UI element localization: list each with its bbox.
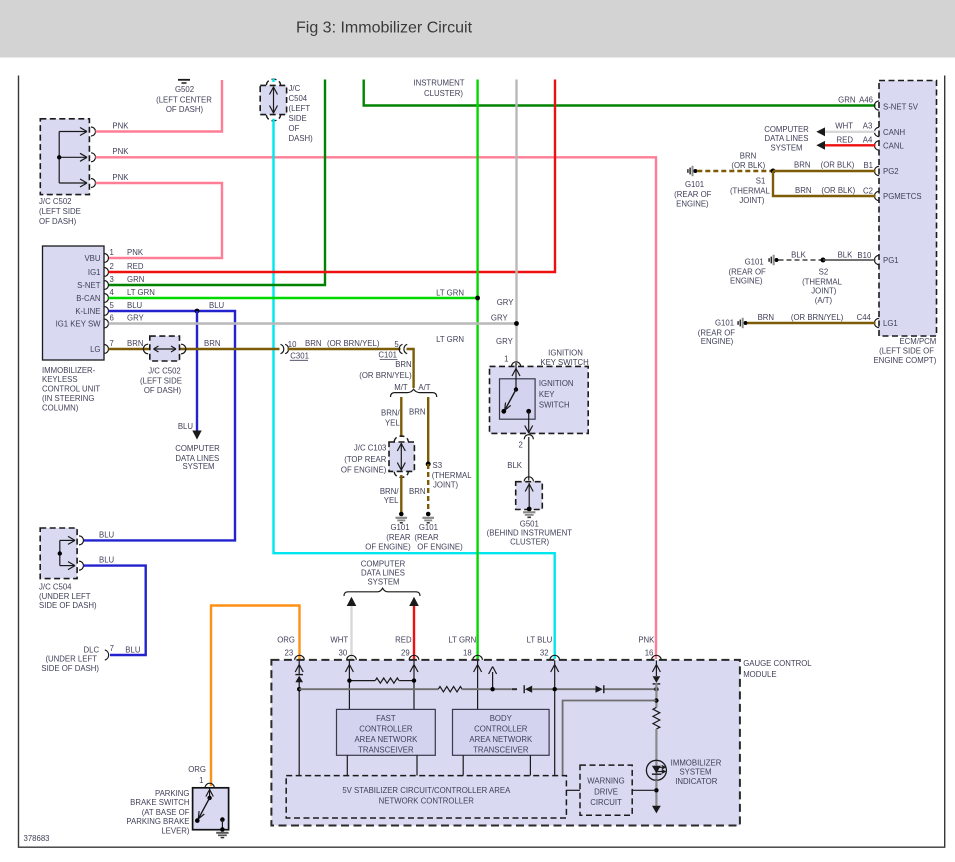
svg-text:BRN/: BRN/ xyxy=(381,408,400,417)
svg-text:OF ENGINE): OF ENGINE) xyxy=(365,542,411,551)
svg-text:C301: C301 xyxy=(290,351,309,360)
wire junction to warning drive circuit xyxy=(632,789,656,791)
svg-text:BRN: BRN xyxy=(395,360,411,369)
svg-text:PG1: PG1 xyxy=(883,256,899,265)
svg-text:(OR BRN/YEL): (OR BRN/YEL) xyxy=(359,371,412,380)
svg-text:C44: C44 xyxy=(857,313,872,322)
main internal bus with resistor R2 xyxy=(299,687,656,692)
svg-text:CLUSTER): CLUSTER) xyxy=(510,538,549,547)
node LED warning junction xyxy=(654,788,658,792)
svg-text:BRN: BRN xyxy=(409,408,425,417)
svg-text:IMMOBILIZER-: IMMOBILIZER- xyxy=(42,366,96,375)
svg-text:FAST: FAST xyxy=(376,714,396,723)
wire PNK C502 pin2 to gauge module pin16 xyxy=(96,157,657,659)
svg-text:Fig 3: Immobilizer Circuit: Fig 3: Immobilizer Circuit xyxy=(296,19,473,36)
brace computer data lines xyxy=(344,588,420,596)
wire pin16 branch to 5V stabilizer xyxy=(563,701,657,776)
svg-text:S-NET: S-NET xyxy=(77,281,101,290)
arrow CANH left xyxy=(816,127,825,136)
internal arrow stub near pin18 xyxy=(489,667,497,690)
svg-text:BLU: BLU xyxy=(178,422,194,431)
module pin arcs xyxy=(295,655,661,660)
wire stabilizer to warning box xyxy=(566,789,580,791)
split brace M/T A/T xyxy=(391,389,437,397)
node pin32 bus junction xyxy=(553,687,557,691)
node S1 thermal joint xyxy=(771,169,776,174)
svg-text:B1: B1 xyxy=(863,161,873,170)
svg-text:G502: G502 xyxy=(175,85,194,94)
svg-text:MODULE: MODULE xyxy=(743,670,776,679)
svg-text:LG1: LG1 xyxy=(883,319,898,328)
wire WHT stub to module pin30 xyxy=(350,606,352,660)
svg-text:SIDE OF DASH): SIDE OF DASH) xyxy=(41,664,99,673)
LED immobilizer system indicator xyxy=(646,760,666,780)
svg-text:BLU: BLU xyxy=(125,645,141,654)
gauge control module box xyxy=(271,660,740,826)
svg-text:YEL: YEL xyxy=(385,418,400,427)
svg-text:30: 30 xyxy=(339,649,348,658)
svg-text:ECM/PCM: ECM/PCM xyxy=(899,337,936,346)
junction connector G501 J/C xyxy=(516,477,543,510)
wire GRN immobilizer unit pin3 up xyxy=(109,80,326,286)
svg-text:J/C C504: J/C C504 xyxy=(39,583,72,592)
ground G101 (PG2) xyxy=(688,166,697,176)
svg-text:1: 1 xyxy=(110,248,114,257)
svg-text:CLUSTER): CLUSTER) xyxy=(424,89,463,98)
wire BRN/YEL M/T branch xyxy=(400,397,402,437)
svg-text:29: 29 xyxy=(401,649,410,658)
wire LED down xyxy=(655,780,657,806)
svg-text:G101: G101 xyxy=(715,319,734,328)
svg-text:GAUGE CONTROL: GAUGE CONTROL xyxy=(743,659,812,668)
svg-text:5V STABILIZER CIRCUIT/CONTROLL: 5V STABILIZER CIRCUIT/CONTROLLER AREA xyxy=(342,786,511,795)
fast controller box xyxy=(337,709,436,755)
svg-text:(AT BASE OF: (AT BASE OF xyxy=(142,808,190,817)
svg-text:(REAR OF: (REAR OF xyxy=(674,190,711,199)
svg-text:BRN: BRN xyxy=(740,152,756,161)
svg-text:JOINT): JOINT) xyxy=(811,286,837,295)
svg-text:PNK: PNK xyxy=(112,147,129,156)
svg-text:18: 18 xyxy=(463,649,472,658)
svg-text:BLK: BLK xyxy=(838,251,854,260)
svg-text:J/C C103: J/C C103 xyxy=(354,444,387,453)
svg-text:SIDE: SIDE xyxy=(289,114,307,123)
svg-text:M/T: M/T xyxy=(394,383,408,392)
svg-text:DASH): DASH) xyxy=(289,134,314,143)
svg-text:AREA NETWORK: AREA NETWORK xyxy=(354,735,418,744)
svg-text:(LEFT SIDE OF: (LEFT SIDE OF xyxy=(879,347,934,356)
svg-text:LT BLU: LT BLU xyxy=(527,636,553,645)
svg-text:TRANSCEIVER: TRANSCEIVER xyxy=(358,746,414,755)
svg-text:(TOP REAR: (TOP REAR xyxy=(344,455,387,464)
arrow BLU down xyxy=(192,431,201,440)
svg-text:BRN: BRN xyxy=(305,339,321,348)
svg-text:5: 5 xyxy=(110,301,115,310)
svg-text:(LEFT CENTER: (LEFT CENTER xyxy=(156,95,212,104)
svg-text:ORG: ORG xyxy=(188,765,206,774)
svg-text:A3: A3 xyxy=(863,122,873,131)
svg-text:J/C C502: J/C C502 xyxy=(39,197,72,206)
svg-text:SYSTEM: SYSTEM xyxy=(182,462,214,471)
svg-text:GRY: GRY xyxy=(127,314,145,323)
wire BLU pin5 xyxy=(84,311,236,540)
svg-text:A4: A4 xyxy=(863,135,873,144)
wire BRN dashed G101 to S1 xyxy=(697,170,773,172)
svg-text:IG1: IG1 xyxy=(88,268,101,277)
svg-text:TRANSCEIVER: TRANSCEIVER xyxy=(473,746,529,755)
node GRY junction xyxy=(514,321,519,326)
svg-text:B-CAN: B-CAN xyxy=(76,294,100,303)
wire BRN G101 to LG1 xyxy=(748,322,876,324)
svg-text:WHT: WHT xyxy=(835,122,853,131)
svg-text:CONTROLLER: CONTROLLER xyxy=(474,725,528,734)
svg-text:G501: G501 xyxy=(520,519,539,528)
wire RED CANL xyxy=(825,144,876,146)
ground parking brake xyxy=(216,827,228,837)
svg-text:SIDE OF DASH): SIDE OF DASH) xyxy=(39,601,97,610)
svg-text:K-LINE: K-LINE xyxy=(75,307,100,316)
svg-text:IGNITION: IGNITION xyxy=(539,379,574,388)
immobilizer-keyless control unit U1 xyxy=(43,246,109,360)
svg-text:BLK: BLK xyxy=(507,461,523,470)
ground G101 (LG1) xyxy=(738,318,747,328)
svg-text:LT GRN: LT GRN xyxy=(436,289,464,298)
svg-text:BRN: BRN xyxy=(795,186,811,195)
svg-text:LT GRN: LT GRN xyxy=(436,335,464,344)
svg-text:IG1 KEY SW: IG1 KEY SW xyxy=(56,320,102,329)
warning drive circuit box xyxy=(580,765,632,815)
svg-text:DATA LINES: DATA LINES xyxy=(765,134,809,143)
wire RED pin2 up xyxy=(109,80,556,273)
diode D2 pointing left xyxy=(525,686,532,693)
svg-text:2: 2 xyxy=(518,440,522,449)
arrow WHT up xyxy=(347,597,357,606)
svg-text:378683: 378683 xyxy=(24,834,50,843)
svg-text:OF ENGINE): OF ENGINE) xyxy=(341,466,387,475)
connector C101 xyxy=(399,344,407,353)
svg-text:ENGINE COMPT): ENGINE COMPT) xyxy=(873,356,936,365)
svg-text:A46: A46 xyxy=(859,96,873,105)
svg-text:(BEHIND INSTRUMENT: (BEHIND INSTRUMENT xyxy=(487,528,573,537)
ground G101 (A/T branch) xyxy=(422,512,434,523)
svg-text:BRN: BRN xyxy=(204,339,220,348)
resistor R3 on pin16 line xyxy=(653,707,660,729)
svg-text:G101: G101 xyxy=(685,180,704,189)
connector DLC xyxy=(105,650,109,660)
svg-text:INSTRUMENT: INSTRUMENT xyxy=(413,79,464,88)
svg-text:LG: LG xyxy=(90,345,100,354)
svg-text:(OR BLK): (OR BLK) xyxy=(821,186,855,195)
svg-text:IMMOBILIZER: IMMOBILIZER xyxy=(671,759,722,768)
junction connector J/C C504 (under left side of dash) xyxy=(40,528,83,579)
wire PNK C502 pin1 to top xyxy=(96,80,223,132)
svg-text:OF DASH): OF DASH) xyxy=(39,217,77,226)
svg-text:VBU: VBU xyxy=(84,254,100,263)
svg-text:C2: C2 xyxy=(863,186,873,195)
svg-text:ENGINE): ENGINE) xyxy=(701,337,734,346)
svg-text:(REAR OF: (REAR OF xyxy=(698,328,735,337)
ground G502 xyxy=(178,80,190,83)
svg-text:S-NET 5V: S-NET 5V xyxy=(883,102,919,111)
svg-text:S2: S2 xyxy=(819,267,829,276)
svg-text:COMPUTER: COMPUTER xyxy=(175,444,220,453)
svg-text:COMPUTER: COMPUTER xyxy=(764,125,809,134)
wire LT GRN vertical to gauge module pin18 xyxy=(476,80,478,660)
node BLU junction xyxy=(195,309,200,314)
svg-text:DRIVE: DRIVE xyxy=(594,788,618,797)
ground G101 (PG1) xyxy=(769,255,778,265)
svg-text:CONTROLLER: CONTROLLER xyxy=(359,725,413,734)
svg-text:(IN STEERING: (IN STEERING xyxy=(42,394,94,403)
svg-text:1: 1 xyxy=(199,776,203,785)
body controller box xyxy=(453,709,550,755)
svg-text:PNK: PNK xyxy=(112,173,129,182)
svg-text:G101: G101 xyxy=(419,523,438,532)
svg-text:G101: G101 xyxy=(390,523,409,532)
svg-text:SYSTEM: SYSTEM xyxy=(770,143,802,152)
wire BRN S1 to PGMETCS xyxy=(773,171,876,196)
svg-text:A/T: A/T xyxy=(418,383,430,392)
resistor R1 between pin30 and pin29 xyxy=(347,678,416,683)
arrow CANL left xyxy=(816,141,825,150)
svg-text:5: 5 xyxy=(394,340,399,349)
svg-text:SYSTEM: SYSTEM xyxy=(367,577,399,586)
wire GRN instrument cluster to ECM S-NET 5V xyxy=(364,80,876,106)
wire RED stub to module pin29 xyxy=(413,606,415,660)
svg-text:C504: C504 xyxy=(289,94,308,103)
junction connector J/C C502 small (pin7) xyxy=(143,336,185,361)
wire pin16 internals xyxy=(655,683,657,708)
wire stubs fast box to stabilizer xyxy=(347,755,530,775)
svg-text:COLUMN): COLUMN) xyxy=(42,403,79,412)
5v stabilizer box xyxy=(286,776,566,818)
svg-text:CANL: CANL xyxy=(883,141,904,150)
svg-text:LEVER): LEVER) xyxy=(161,827,190,836)
svg-text:WHT: WHT xyxy=(330,636,348,645)
svg-text:16: 16 xyxy=(645,649,654,658)
svg-text:BLU: BLU xyxy=(99,556,115,565)
ignition key switch S2 xyxy=(490,355,589,440)
svg-text:PNK: PNK xyxy=(638,636,655,645)
svg-text:KEY SWITCH: KEY SWITCH xyxy=(540,358,588,367)
svg-text:NETWORK CONTROLLER: NETWORK CONTROLLER xyxy=(379,797,475,806)
wire BRN pin7 to C301 xyxy=(109,348,280,350)
svg-text:LT GRN: LT GRN xyxy=(448,636,476,645)
svg-text:(LEFT SIDE: (LEFT SIDE xyxy=(140,376,182,385)
svg-text:BRN: BRN xyxy=(794,161,810,170)
svg-text:LT GRN: LT GRN xyxy=(127,288,155,297)
svg-text:(UNDER LEFT: (UNDER LEFT xyxy=(45,655,97,664)
svg-text:PARKING BRAKE: PARKING BRAKE xyxy=(126,817,189,826)
svg-text:ENGINE): ENGINE) xyxy=(730,276,763,285)
svg-text:CANH: CANH xyxy=(883,128,905,137)
svg-text:(OR BRN/YEL): (OR BRN/YEL) xyxy=(791,313,844,322)
svg-text:KEY: KEY xyxy=(539,390,555,399)
svg-text:B10: B10 xyxy=(857,251,872,260)
svg-text:YEL: YEL xyxy=(384,496,399,505)
arrow RED up xyxy=(409,597,419,606)
svg-text:(OR BRN/YEL): (OR BRN/YEL) xyxy=(327,339,380,348)
svg-text:RED: RED xyxy=(127,262,144,271)
svg-text:WARNING: WARNING xyxy=(587,777,624,786)
ground G101 (M/T branch) xyxy=(396,512,408,523)
svg-text:(OR BLK): (OR BLK) xyxy=(731,161,765,170)
svg-text:AREA NETWORK: AREA NETWORK xyxy=(469,735,533,744)
wire BLK S2 to PG1 xyxy=(823,259,876,261)
svg-text:JOINT): JOINT) xyxy=(739,196,765,205)
svg-text:6: 6 xyxy=(110,314,114,323)
svg-text:PNK: PNK xyxy=(112,121,129,130)
node pin16 branch junction xyxy=(654,698,658,702)
svg-text:CIRCUIT: CIRCUIT xyxy=(590,798,622,807)
svg-text:CONTROL UNIT: CONTROL UNIT xyxy=(42,385,100,394)
svg-text:INDICATOR: INDICATOR xyxy=(675,777,718,786)
svg-text:(THERMAL: (THERMAL xyxy=(802,278,843,287)
svg-text:BLU: BLU xyxy=(99,531,115,540)
svg-text:ENGINE): ENGINE) xyxy=(676,199,709,208)
svg-text:KEYLESS: KEYLESS xyxy=(42,375,78,384)
svg-text:2: 2 xyxy=(110,262,114,271)
svg-text:PARKING: PARKING xyxy=(155,789,190,798)
connector C301 xyxy=(281,344,289,353)
wire BLU C504 lower pin to DLC xyxy=(84,566,146,655)
parking brake switch S1 xyxy=(193,783,229,830)
svg-text:PGMETCS: PGMETCS xyxy=(883,192,922,201)
wire pin23 line down to 5V stabilizer xyxy=(298,682,300,776)
wire BRN dashed below S3 xyxy=(427,464,429,512)
svg-text:(UNDER LEFT: (UNDER LEFT xyxy=(39,592,91,601)
wire BRN A/T branch xyxy=(427,397,429,464)
diode D3 pointing right xyxy=(596,686,603,693)
wire BLK ignition to G501 xyxy=(528,437,530,481)
svg-text:(A/T): (A/T) xyxy=(815,296,833,305)
svg-text:BRN: BRN xyxy=(127,339,143,348)
svg-text:23: 23 xyxy=(285,649,294,658)
svg-text:GRY: GRY xyxy=(497,298,515,307)
svg-text:PNK: PNK xyxy=(127,248,144,257)
svg-text:(REAR: (REAR xyxy=(386,533,411,542)
svg-text:BODY: BODY xyxy=(490,714,513,723)
wire GRY pin6 xyxy=(109,322,517,324)
wire WHT CANH xyxy=(825,131,876,133)
svg-text:C101: C101 xyxy=(378,351,397,360)
wire GRY vertical to ignition key switch xyxy=(515,80,517,366)
svg-text:DLC: DLC xyxy=(83,646,99,655)
diode D4 on pin16 line pointing down xyxy=(653,676,661,683)
svg-text:SYSTEM: SYSTEM xyxy=(679,768,711,777)
svg-text:BLK: BLK xyxy=(791,251,807,260)
svg-text:BRN: BRN xyxy=(409,487,425,496)
ECM/PCM U2 xyxy=(874,81,936,337)
svg-text:7: 7 xyxy=(110,339,114,348)
svg-text:7: 7 xyxy=(110,644,114,653)
svg-text:OF ENGINE): OF ENGINE) xyxy=(417,542,463,551)
junction connector J/C C502 (left side of dash) xyxy=(40,119,95,195)
wire BRN C301 to C101 xyxy=(288,348,401,350)
svg-text:PG2: PG2 xyxy=(883,167,899,176)
svg-text:OF: OF xyxy=(289,124,300,133)
svg-text:(LEFT: (LEFT xyxy=(289,104,311,113)
svg-text:(LEFT SIDE: (LEFT SIDE xyxy=(39,207,81,216)
svg-text:S3: S3 xyxy=(433,461,443,470)
wire BRN S1 to PG2 xyxy=(773,170,876,172)
svg-text:(THERMAL: (THERMAL xyxy=(432,471,473,480)
svg-text:(OR BLK): (OR BLK) xyxy=(821,161,855,170)
wire BLU branch to computer data lines xyxy=(196,311,198,431)
svg-text:IGNITION: IGNITION xyxy=(548,349,583,358)
svg-text:BLU: BLU xyxy=(127,301,143,310)
wire ORG parking brake to gauge module pin23 xyxy=(211,606,300,787)
svg-text:4: 4 xyxy=(110,288,115,297)
svg-text:COMPUTER: COMPUTER xyxy=(361,559,406,568)
svg-text:GRY: GRY xyxy=(496,337,514,346)
node pin23 bus junction xyxy=(297,687,301,691)
svg-text:BRN/: BRN/ xyxy=(380,487,399,496)
svg-text:J/C: J/C xyxy=(289,84,301,93)
svg-text:DATA LINES: DATA LINES xyxy=(361,568,405,577)
svg-text:J/C C502: J/C C502 xyxy=(148,367,181,376)
svg-text:BRN: BRN xyxy=(758,313,774,322)
svg-text:OF DASH): OF DASH) xyxy=(144,386,182,395)
svg-text:GRN: GRN xyxy=(127,275,144,284)
svg-text:S1: S1 xyxy=(756,176,766,185)
svg-text:OF DASH): OF DASH) xyxy=(166,105,204,114)
node LT GRN junction xyxy=(475,296,480,301)
svg-text:GRN: GRN xyxy=(838,96,855,105)
node S2 thermal joint xyxy=(821,258,826,263)
svg-text:SWITCH: SWITCH xyxy=(539,401,570,410)
wire BRN C101 down to split xyxy=(407,349,414,388)
node S3 thermal joint xyxy=(426,462,431,467)
svg-text:BRAKE SWITCH: BRAKE SWITCH xyxy=(130,798,189,807)
module pin entry arrows xyxy=(295,661,660,776)
wire PNK C502 pin3 to immobilizer unit pin1 xyxy=(96,183,223,258)
svg-text:(REAR OF: (REAR OF xyxy=(729,267,766,276)
wire LT GRN pin4 xyxy=(109,297,478,299)
svg-text:JOINT): JOINT) xyxy=(433,480,459,489)
svg-text:BLU: BLU xyxy=(209,301,225,310)
svg-text:3: 3 xyxy=(110,275,114,284)
svg-text:32: 32 xyxy=(540,649,549,658)
svg-text:ORG: ORG xyxy=(277,636,295,645)
wire BRN/YEL below C103 xyxy=(400,475,402,513)
arrow down end of pin16 line xyxy=(652,806,661,814)
svg-text:10: 10 xyxy=(288,340,297,349)
diode D1 on pin23 line xyxy=(295,676,303,683)
junction connector J/C C103 xyxy=(389,436,414,477)
wire BLK dashed G101 to S2 xyxy=(779,259,824,261)
svg-text:RED: RED xyxy=(395,636,412,645)
svg-text:GRY: GRY xyxy=(491,313,509,322)
svg-text:RED: RED xyxy=(837,135,854,144)
node pin16 bus junction xyxy=(654,687,658,691)
ground G501 xyxy=(523,507,535,518)
svg-text:(REAR: (REAR xyxy=(414,533,439,542)
wire LT BLU J/C C504 down to gauge module pin32 xyxy=(274,119,555,659)
junction connector J/C C504 (left side of dash, top) xyxy=(260,79,286,121)
svg-text:(THERMAL: (THERMAL xyxy=(730,186,771,195)
title bar xyxy=(0,0,955,58)
svg-text:1: 1 xyxy=(504,355,508,364)
svg-text:G101: G101 xyxy=(745,257,764,266)
